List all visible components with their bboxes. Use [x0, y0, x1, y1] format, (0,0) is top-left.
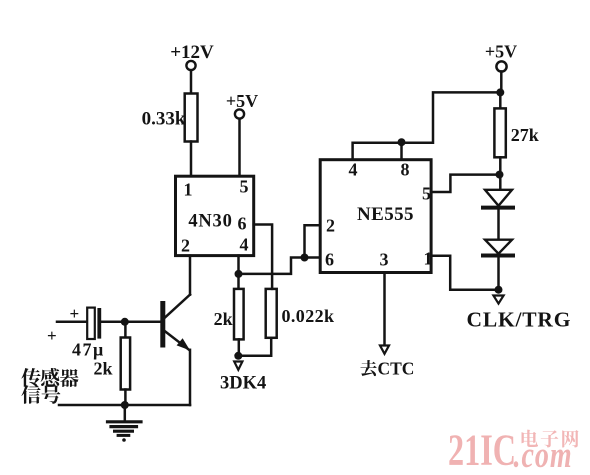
wire [305, 225, 321, 257]
node junction pin5 tie [496, 171, 504, 179]
svg-text:CLK/TRG: CLK/TRG [467, 308, 572, 332]
timer IC U2 NE555 [320, 160, 432, 273]
svg-text:2: 2 [326, 216, 335, 236]
svg-text:3: 3 [380, 250, 389, 270]
wire [499, 92, 502, 108]
svg-text:8: 8 [401, 160, 410, 180]
svg-text:5: 5 [422, 184, 431, 204]
node junction bottom [234, 352, 242, 360]
node junction +5V rail [496, 88, 504, 96]
wire (pins 4,8 to +5V) [353, 92, 501, 159]
wire [499, 157, 502, 189]
resistor R 27k [494, 108, 538, 157]
label xin hao [21, 385, 60, 404]
svg-text:2: 2 [181, 236, 190, 256]
svg-text:CTC: CTC [378, 359, 415, 379]
capacitor C1 47u electrolytic [70, 304, 105, 360]
wire (bottom rail) [59, 404, 190, 407]
svg-text:2k: 2k [214, 309, 233, 329]
ground [108, 405, 142, 442]
optocoupler U1 4N30 [176, 176, 254, 255]
svg-text:4: 4 [349, 160, 358, 180]
watermark .com [514, 435, 573, 475]
resistor R 2k (emitter load) [214, 289, 244, 356]
svg-text:+5V: +5V [485, 42, 517, 62]
wire (emitter down) [189, 350, 192, 405]
diode D2 [483, 240, 513, 256]
label qu CTC [360, 359, 414, 379]
node junction pin2/6 tie [301, 254, 309, 262]
node junction pin8 [398, 138, 406, 146]
wire (4N30 pin 2 to transistor collector) [189, 256, 192, 295]
wire [497, 257, 500, 290]
arrow CLK/TRG output [467, 296, 572, 332]
wire (pin 1 to output node) [431, 256, 498, 290]
svg-text:+5V: +5V [226, 91, 258, 111]
svg-text:1: 1 [424, 249, 433, 269]
svg-text:0.022k: 0.022k [282, 306, 335, 326]
power terminal +5V (right) [485, 42, 517, 72]
svg-text:5: 5 [240, 177, 249, 197]
diode D1 [483, 190, 513, 208]
label sensor signal (chuan gan qi) [21, 368, 78, 387]
svg-text:21IC: 21IC [448, 426, 516, 475]
wire [500, 71, 503, 92]
svg-text:4N30: 4N30 [188, 212, 232, 232]
resistor R 2k (base) [93, 322, 130, 405]
svg-text:.com: .com [514, 435, 573, 475]
wire (pin 8 stub) [400, 143, 403, 160]
svg-text:NE555: NE555 [357, 204, 414, 225]
wire (to pin 5) [431, 175, 499, 192]
svg-text:0.33k: 0.33k [142, 109, 186, 130]
node junction pin4 [235, 270, 243, 278]
wire [190, 142, 193, 177]
svg-text:+: + [70, 304, 80, 323]
svg-text:6: 6 [238, 214, 247, 234]
node junction output [495, 286, 503, 294]
wire [101, 321, 160, 324]
wire [239, 258, 321, 274]
svg-text:+: + [47, 326, 57, 345]
power terminal +5V (left) [226, 91, 258, 119]
wire [238, 338, 271, 356]
svg-text:27k: 27k [511, 125, 539, 145]
svg-text:1: 1 [184, 180, 193, 200]
svg-text:47μ: 47μ [72, 340, 105, 360]
arrow to 3DK4 [220, 362, 266, 394]
wire (4N30 pin 6 to 0.022k) [254, 225, 272, 289]
svg-text:2k: 2k [93, 359, 112, 379]
resistor R 0.33k [142, 94, 198, 142]
svg-text:4: 4 [240, 235, 249, 255]
arrow to CTC [380, 346, 389, 354]
watermark 21IC [448, 426, 516, 475]
power terminal +12V [170, 42, 214, 70]
watermark dian zi wang [522, 430, 579, 448]
svg-text:3DK4: 3DK4 [220, 374, 266, 394]
node junction ground [121, 401, 129, 409]
wire (pin 4 down) [237, 256, 240, 289]
node junction base [121, 318, 129, 326]
wire (signal input) [57, 321, 87, 324]
svg-text:6: 6 [325, 250, 334, 270]
resistor R 0.022k [266, 289, 335, 338]
wire [190, 70, 193, 93]
wire [238, 119, 241, 176]
transistor Q1 3DK4 NPN [160, 295, 190, 351]
wire (pin 3 down) [383, 273, 386, 346]
wire [497, 209, 500, 240]
